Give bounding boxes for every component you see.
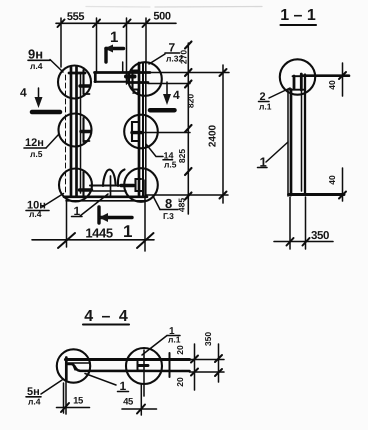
right post flange line a [138,63,141,196]
vertical through right circle [143,350,145,396]
svg-text:500: 500 [153,11,170,23]
outer dim tick top [220,69,227,76]
bottom bar upper chord [90,185,125,187]
inner dim tick y45 [185,42,192,49]
svg-text:350: 350 [203,332,213,346]
top bar left cap [94,73,97,82]
svg-text:1: 1 [110,29,118,46]
dim 15 [57,407,90,409]
left post flange line b [75,67,78,196]
detail circle L1 [58,66,91,99]
section mark 1 top: arrow [106,47,124,50]
1445 tick left [58,233,75,248]
svg-text:485: 485 [177,198,187,212]
svg-text:270: 270 [179,50,189,64]
top dim tick x96.5 [93,20,100,28]
leader 1 mid [85,374,116,386]
middle tongue detail [103,170,116,187]
section mark 1 bottom: arrow [97,207,100,223]
top bar lower chord [95,81,130,83]
svg-text:825: 825 [177,149,187,163]
svg-text:2400: 2400 [208,124,219,147]
inner vertical dim line [187,43,189,214]
channel inner line [301,90,303,191]
inner dim line 20/20 [194,344,196,390]
leader 1 l.1 [142,336,167,356]
svg-text:555: 555 [67,11,84,23]
dim 40 top [342,63,344,96]
leader 2 [269,88,290,98]
inner dim tick y128.5 [185,125,192,132]
leader 8 [153,196,160,210]
svg-text:1: 1 [123,222,132,241]
detail circle S4 right [126,348,162,384]
leader 14 [146,144,163,157]
svg-text:Г.3: Г.3 [163,211,174,221]
leader 10n [42,194,64,208]
detail circle R2 [124,115,158,149]
leader 12n [46,134,59,148]
scan smudge top [86,6,262,9]
svg-text:45: 45 [123,397,134,408]
inner dim tick y196 [185,193,192,200]
extension line x146 [145,18,147,63]
right post top cap [128,81,149,84]
350 tick left [287,238,294,246]
section mark 4 left: arrow [38,88,40,104]
svg-text:40: 40 [327,80,337,90]
dim 1445 line [32,239,154,241]
svg-text:20: 20 [175,345,185,355]
top anchor detail [293,76,296,89]
svg-text:350: 350 [311,230,329,242]
svg-text:15: 15 [73,396,84,407]
1445 tick right [137,233,154,248]
bracket R3 [136,179,142,191]
leader 5n [41,380,62,394]
section mark 4 right: arrow [166,82,168,101]
svg-text:4 – 4: 4 – 4 [84,308,130,325]
top dim tick x146 [143,20,150,28]
channel thin left line [287,90,289,196]
left cap extension down [65,380,67,414]
svg-text:л.1: л.1 [259,102,272,112]
extension y132.5 right [140,132,190,134]
svg-text:4: 4 [20,86,27,100]
350 tick right [303,238,310,246]
extension below left [289,197,291,249]
extension below right [305,197,307,249]
bottom flange [289,193,345,196]
svg-text:4: 4 [173,88,180,102]
outer vertical dim line 2400 [222,65,224,203]
dim 45 [122,408,157,410]
inner dim tick y72 [185,69,192,76]
inner dim tick y171.5 [185,168,192,175]
jog shade [72,365,78,371]
svg-text:20: 20 [175,377,185,387]
extension line x61 [60,18,62,67]
left post flange line a [70,67,73,196]
leader 9n [50,60,63,73]
extension stub x122.7 [122,62,124,73]
extension x145 down [144,180,146,251]
leader 1 tongue [80,194,108,216]
svg-text:12н: 12н [25,137,44,149]
bar left cap [65,358,68,381]
extension lines right [190,359,225,361]
left post top cap [69,72,85,75]
left post dashed edge [65,75,67,192]
svg-text:л.4: л.4 [28,397,41,407]
bracket R1 [133,71,140,90]
left post flange line c [80,73,82,193]
detail circle L2 [59,114,92,147]
svg-text:л.4: л.4 [30,61,43,71]
right post flange line b [142,63,144,196]
extension y83.5 right [148,83,190,85]
bracket R2 [132,122,139,141]
right post edge line [145,63,147,196]
channel right edge [304,75,306,196]
top flange [303,74,349,77]
bar bottom edge with jog [67,364,190,371]
svg-text:9н: 9н [28,47,43,62]
dim 350 line [274,241,333,243]
top bar upper chord [95,71,151,74]
inner dim tick y84 [185,81,192,88]
detail circle L3 [59,169,92,202]
detail circle section1 [280,59,315,94]
svg-text:1445: 1445 [85,226,112,241]
stiffener line right [169,353,171,377]
bottom bar lower edge [66,200,146,202]
weld detail L3 [82,172,84,196]
svg-text:л.5: л.5 [30,149,43,159]
extension x66.5 down [66,200,68,247]
detail circle R3 [124,168,158,202]
svg-text:л.4: л.4 [29,209,42,219]
bracket S4 right [138,362,145,371]
top dim tick x127 [124,20,131,28]
outer dim line 350 [218,344,220,382]
outer dim tick bottom [220,192,227,199]
leader 7 [149,54,165,64]
svg-text:л.1: л.1 [168,335,181,345]
detail circle S4 left [57,349,90,382]
top bar right cap [127,73,130,82]
extension y195 right [146,194,228,196]
extension line x126.5 [126,18,128,84]
bar inner top line [68,362,90,364]
svg-text:1 – 1: 1 – 1 [280,7,316,24]
leader 1 web [266,142,288,162]
extension y72.5 right [150,72,229,74]
bottom bar lower chord [64,195,147,198]
svg-text:820: 820 [186,94,196,108]
svg-text:40: 40 [327,175,337,185]
weld detail L1 [82,70,84,94]
weld detail L2 [82,118,84,142]
top dim tick x61 [58,20,65,28]
detail circle R1 [128,62,162,96]
svg-text:л.5: л.5 [164,160,177,170]
bar top edge [66,358,190,361]
extension line x96.5 [96,18,98,72]
channel left edge [290,90,293,196]
dim 40 bottom [342,168,344,201]
top dimension line [56,22,176,24]
